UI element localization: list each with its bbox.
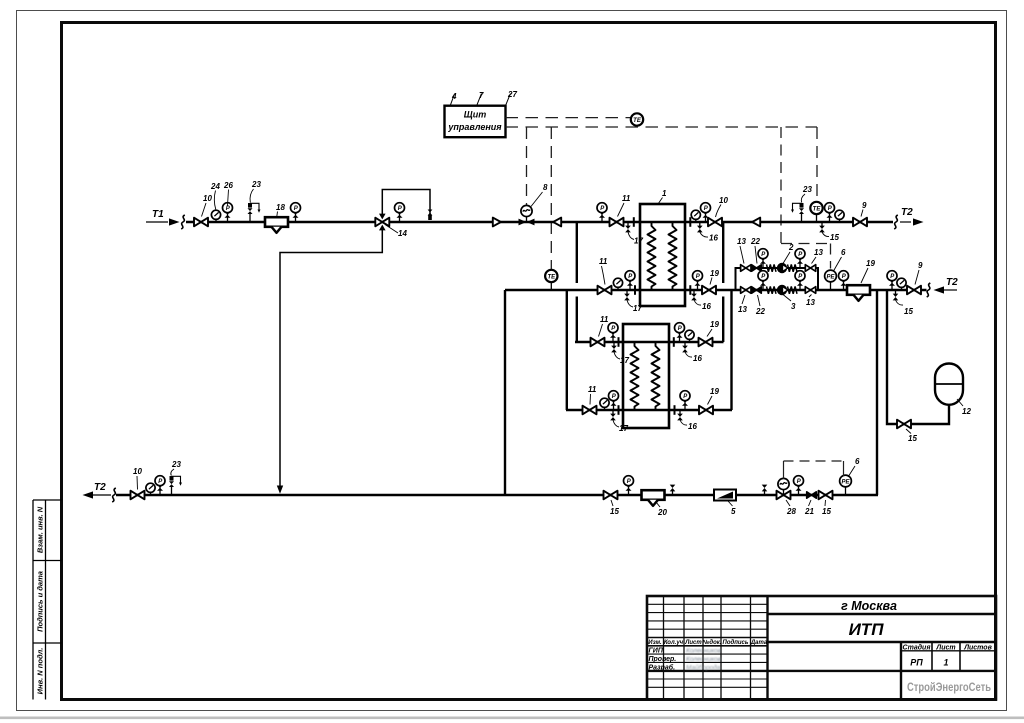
svg-text:8: 8 bbox=[543, 183, 548, 192]
drain 16 HX2 bottom bbox=[677, 410, 683, 420]
svg-text:Изм.: Изм. bbox=[648, 640, 662, 646]
pressure regulator 23 right bbox=[791, 203, 804, 222]
svg-text:28: 28 bbox=[786, 507, 796, 516]
pump 2 bbox=[777, 263, 787, 273]
thermometer HX1 out bbox=[691, 210, 700, 222]
T2 exit label top bbox=[900, 221, 911, 223]
svg-text:16: 16 bbox=[709, 234, 718, 243]
arrow T1 in bbox=[169, 218, 180, 225]
svg-text:16: 16 bbox=[688, 422, 697, 431]
air vent 2 bbox=[762, 485, 768, 495]
valve 15 bottom right bbox=[819, 491, 833, 500]
dashed wire to pump PE sensor bbox=[781, 127, 831, 269]
gauge P HX1 bottom right bbox=[693, 271, 703, 290]
heat exchanger 1 bbox=[640, 204, 685, 306]
pump 3 bbox=[777, 285, 787, 295]
svg-text:11: 11 bbox=[622, 194, 631, 203]
gauge P after valve 14 bbox=[395, 203, 405, 222]
svg-text:24: 24 bbox=[210, 182, 220, 191]
flex insert upper left bbox=[767, 264, 777, 271]
flex insert upper right bbox=[788, 264, 798, 271]
svg-text:10: 10 bbox=[719, 196, 728, 205]
svg-text:13: 13 bbox=[814, 248, 823, 257]
valve 19 HX2 top right bbox=[699, 338, 713, 347]
svg-text:Кол.уч: Кол.уч bbox=[664, 640, 684, 646]
left attribute strip bbox=[33, 500, 62, 700]
svg-text:23: 23 bbox=[171, 460, 181, 469]
gauge P bottom bbox=[624, 476, 634, 495]
svg-text:ИТП: ИТП bbox=[849, 620, 885, 639]
svg-text:Лист: Лист bbox=[935, 645, 955, 652]
svg-text:19: 19 bbox=[866, 259, 875, 268]
svg-text:16: 16 bbox=[702, 302, 711, 311]
break symbol bbox=[181, 215, 185, 229]
svg-text:10: 10 bbox=[203, 194, 212, 203]
HX1 left coil bbox=[648, 222, 656, 290]
three way valve 14 bbox=[375, 218, 389, 227]
flow direction triangle left bbox=[553, 218, 561, 227]
svg-text:23: 23 bbox=[802, 185, 812, 194]
pipe HX2 upper circuit bbox=[575, 341, 724, 344]
svg-text:17: 17 bbox=[619, 424, 628, 433]
svg-text:Разраб.: Разраб. bbox=[649, 663, 676, 671]
svg-text:11: 11 bbox=[599, 257, 608, 266]
dashed wire to TE3 bbox=[550, 127, 552, 269]
valve 15 tank bbox=[897, 420, 911, 429]
gauge P upper before pump bbox=[758, 249, 768, 268]
svg-text:17: 17 bbox=[620, 356, 629, 365]
valve 15 bottom bbox=[604, 491, 618, 500]
blurred names bbox=[686, 648, 722, 672]
svg-text:управления: управления bbox=[447, 122, 502, 132]
gauge P HX2 top left bbox=[608, 323, 618, 342]
thermometer 24 bbox=[211, 210, 220, 222]
svg-text:г Москва: г Москва bbox=[841, 599, 897, 613]
pipe T2 second main bbox=[505, 289, 927, 292]
gauge P bottom left bbox=[155, 476, 165, 495]
bypass wire around valve 14 bbox=[382, 190, 430, 221]
thermometer T2 right bbox=[897, 278, 906, 290]
heat exchanger 2 bbox=[623, 324, 669, 428]
wire drop from valve 14 bbox=[280, 226, 382, 486]
svg-text:Т2: Т2 bbox=[946, 277, 958, 288]
svg-text:11: 11 bbox=[588, 385, 597, 394]
gauge P after PE bbox=[839, 271, 849, 290]
gauge P after strainer bbox=[291, 203, 301, 222]
gauge P lower before pump bbox=[758, 271, 768, 290]
flange HX2 bottom right bbox=[674, 405, 676, 415]
tank stem wire bbox=[936, 404, 949, 424]
svg-text:Т2: Т2 bbox=[901, 207, 913, 218]
gauge P before HX1 bbox=[597, 203, 607, 222]
gauge P T2 right bbox=[887, 271, 897, 290]
valve 11 HX1 bottom left bbox=[598, 286, 612, 295]
wire riser HX2 lower right to second pipe bbox=[730, 290, 732, 410]
flow direction triangle left 2 bbox=[752, 218, 760, 227]
drain 16 second bbox=[691, 290, 697, 300]
gauge P upper after pump bbox=[795, 249, 805, 268]
expansion tank 12 bbox=[935, 364, 963, 405]
svg-text:17: 17 bbox=[633, 304, 642, 313]
dashed control wire to TE outdoor bbox=[506, 117, 631, 119]
flange second right bbox=[689, 285, 691, 295]
strainer 20 bbox=[642, 490, 665, 506]
svg-text:Подпись и дата: Подпись и дата bbox=[36, 571, 45, 632]
svg-text:6: 6 bbox=[855, 457, 860, 466]
wire riser T1 to HX2 upper with crossing gap bbox=[576, 222, 578, 342]
svg-text:19: 19 bbox=[710, 387, 719, 396]
wire riser T1 right to HX2 upper right with crossing gap bbox=[722, 222, 724, 342]
valve 13 upper right bbox=[805, 265, 815, 272]
air vent bbox=[670, 485, 676, 495]
valve 10 HX1 top right bbox=[708, 218, 722, 227]
valve 19 HX2 bottom right bbox=[699, 406, 713, 415]
svg-text:РП: РП bbox=[910, 658, 923, 668]
gauge P HX1 bottom left bbox=[625, 271, 635, 290]
bottom scan shadow bbox=[0, 717, 1024, 720]
sensor TE3 second pipe bbox=[550, 282, 552, 290]
svg-text:Провер.: Провер. bbox=[649, 656, 677, 663]
svg-text:15: 15 bbox=[908, 434, 917, 443]
svg-text:ГИП: ГИП bbox=[649, 648, 664, 655]
valve 10 T1 entry bbox=[194, 218, 208, 227]
valve 9 T1 exit bbox=[853, 218, 867, 227]
check valve 22 upper bbox=[752, 265, 762, 271]
svg-text:15: 15 bbox=[830, 233, 839, 242]
flex insert lower left bbox=[767, 286, 777, 293]
wire riser from T2 second to bottom bbox=[504, 290, 506, 495]
T2 return entry arrow bbox=[934, 286, 945, 293]
thermometer HX2 top right bbox=[685, 330, 694, 342]
svg-text:Инв. N подл.: Инв. N подл. bbox=[36, 648, 45, 695]
HX2 right coil bbox=[652, 342, 660, 410]
valve 19 HX1 bottom right bbox=[702, 286, 716, 295]
gauge P after pump 28 bbox=[794, 476, 804, 495]
flange bbox=[633, 217, 635, 227]
svg-text:11: 11 bbox=[600, 315, 609, 324]
svg-text:Т1: Т1 bbox=[152, 209, 164, 220]
svg-text:9: 9 bbox=[862, 201, 867, 210]
wire riser second to HX2 lower bbox=[566, 290, 568, 410]
drain 17 HX2 top bbox=[611, 342, 617, 352]
wire riser bottom to second pipe right bbox=[876, 290, 878, 495]
svg-text:18: 18 bbox=[276, 203, 285, 212]
svg-text:1: 1 bbox=[943, 658, 948, 668]
flow meter 5 bbox=[714, 490, 736, 501]
break bottom left bbox=[112, 488, 116, 502]
pipe T1 supply main bbox=[186, 221, 893, 224]
valve 11 HX2 bottom left bbox=[583, 406, 597, 415]
thermometer bottom left bbox=[146, 483, 155, 495]
svg-text:23: 23 bbox=[251, 180, 261, 189]
svg-text:19: 19 bbox=[710, 320, 719, 329]
gauge 26 bbox=[223, 203, 233, 222]
svg-text:6: 6 bbox=[841, 248, 846, 257]
svg-text:Подпись: Подпись bbox=[723, 640, 749, 646]
svg-text:10: 10 bbox=[133, 467, 142, 476]
svg-text:5: 5 bbox=[731, 507, 736, 516]
flange HX2 top left bbox=[618, 337, 620, 347]
drain 17 bbox=[625, 222, 631, 232]
svg-text:13: 13 bbox=[806, 298, 815, 307]
svg-text:Взам. инв. N: Взам. инв. N bbox=[36, 506, 45, 553]
valve 13 lower right bbox=[805, 287, 815, 294]
valve 10 bottom left bbox=[131, 491, 145, 500]
gauge P HX1 out bbox=[701, 203, 711, 222]
svg-text:№док.: №док. bbox=[702, 639, 722, 646]
gauge P HX2 bottom left bbox=[609, 391, 619, 410]
HX1 right coil bbox=[669, 222, 677, 290]
svg-text:19: 19 bbox=[710, 269, 719, 278]
svg-text:26: 26 bbox=[223, 181, 233, 190]
check valve 22 lower bbox=[752, 287, 762, 293]
pressure regulator 23 left bbox=[248, 203, 261, 222]
svg-text:20: 20 bbox=[657, 508, 667, 517]
svg-text:СтройЭнергоСеть: СтройЭнергоСеть bbox=[907, 680, 991, 694]
valve 11 HX1 top left bbox=[610, 218, 624, 227]
control valve 8 bbox=[519, 219, 535, 226]
sensor PE bottom bbox=[840, 475, 852, 495]
svg-text:15: 15 bbox=[610, 507, 619, 516]
drain 15 right bbox=[893, 290, 899, 300]
check valve 21 bbox=[807, 492, 817, 498]
svg-text:Лист: Лист bbox=[684, 640, 702, 646]
sensor TE outdoor bbox=[631, 113, 643, 125]
flange HX2 bottom left bbox=[618, 405, 620, 415]
svg-text:Стадия: Стадия bbox=[903, 644, 931, 652]
pump group upper branch wire bbox=[736, 268, 819, 290]
break T1 exit bbox=[894, 215, 898, 229]
cock on bypass bbox=[428, 210, 433, 216]
gauge P HX2 bottom right bbox=[680, 391, 690, 410]
svg-text:15: 15 bbox=[822, 507, 831, 516]
flange second left bbox=[634, 285, 636, 295]
flow direction triangle bbox=[493, 218, 501, 227]
drain 17 second bbox=[624, 290, 630, 300]
drain 16 bbox=[697, 222, 703, 232]
pipe HX2 lower circuit bbox=[566, 409, 732, 412]
flange HX2 top right bbox=[673, 337, 675, 347]
flange HX1 top right bbox=[689, 217, 691, 227]
svg-text:Листов: Листов bbox=[963, 645, 992, 652]
drain 15 bbox=[819, 222, 825, 232]
control panel box Shchit upravleniya bbox=[445, 106, 506, 138]
sensor PE pumps bbox=[825, 270, 837, 290]
svg-text:Колесников: Колесников bbox=[686, 648, 722, 655]
svg-text:13: 13 bbox=[738, 305, 747, 314]
svg-text:21: 21 bbox=[804, 507, 814, 516]
valve 9 T2 right bbox=[907, 286, 921, 295]
svg-text:15: 15 bbox=[904, 307, 913, 316]
gauge P HX2 top right bbox=[675, 323, 685, 342]
sensor TE2 bbox=[816, 214, 818, 222]
svg-text:22: 22 bbox=[750, 237, 760, 246]
valve 13 upper left bbox=[741, 265, 751, 272]
svg-text:3: 3 bbox=[791, 302, 796, 311]
break T2 right bbox=[927, 283, 931, 297]
svg-text:1: 1 bbox=[662, 189, 667, 198]
dashed wire pump28 to PE bbox=[784, 460, 844, 462]
valve 11 HX2 top left bbox=[591, 338, 605, 347]
svg-text:13: 13 bbox=[737, 237, 746, 246]
svg-text:Т2: Т2 bbox=[94, 482, 106, 493]
dashed control wire long to TE2 bbox=[506, 126, 818, 128]
junction arrow into bottom pipe bbox=[277, 486, 283, 494]
gauge P T1 end bbox=[825, 203, 835, 222]
dashed wire to valve 8 actuator bbox=[526, 127, 528, 205]
pipe T2 bottom return bbox=[116, 494, 878, 497]
pressure regulator 23 bottom bbox=[169, 476, 182, 495]
drain 17 HX2 bottom bbox=[610, 410, 616, 420]
svg-text:2: 2 bbox=[788, 243, 794, 252]
drain 16 HX2 top bbox=[682, 342, 688, 352]
svg-text:Колесников: Колесников bbox=[686, 656, 722, 663]
svg-text:Щит: Щит bbox=[464, 110, 486, 120]
flex insert lower right bbox=[788, 286, 798, 293]
svg-text:16: 16 bbox=[693, 354, 702, 363]
strainer 18 bbox=[265, 217, 288, 233]
circulation pump 28 bbox=[777, 491, 791, 500]
svg-text:14: 14 bbox=[398, 229, 407, 238]
svg-text:Майборода: Майборода bbox=[686, 663, 721, 671]
thermometer HX2 bottom left bbox=[600, 398, 609, 410]
HX2 left coil bbox=[631, 342, 639, 410]
valve 13 lower left bbox=[741, 287, 751, 294]
expansion tank branch wire bbox=[887, 290, 936, 424]
svg-text:12: 12 bbox=[962, 407, 971, 416]
strainer 19 second pipe bbox=[847, 285, 870, 301]
svg-text:22: 22 bbox=[755, 307, 765, 316]
thermometer HX1 bottom left bbox=[613, 278, 622, 290]
svg-text:Дата: Дата bbox=[750, 640, 768, 646]
gauge P lower after pump bbox=[795, 271, 805, 290]
thermometer T1 end bbox=[835, 210, 844, 222]
title block bbox=[647, 596, 996, 700]
svg-text:9: 9 bbox=[918, 261, 923, 270]
